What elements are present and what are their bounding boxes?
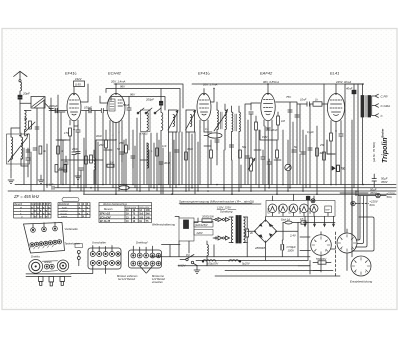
capacitor band A4	[79, 168, 83, 191]
resistor 1k mid	[64, 165, 67, 172]
svg-text:2k: 2k	[249, 231, 254, 235]
svg-text:0,1µF: 0,1µF	[307, 130, 314, 134]
svg-text:100V: 100V	[288, 249, 296, 253]
svg-text:20nF: 20nF	[270, 128, 278, 132]
svg-text:normal: normal	[61, 210, 68, 212]
socket 2	[337, 229, 357, 253]
rectifier bridge 280848	[247, 217, 283, 261]
diode right	[327, 140, 345, 172]
wires strip2	[133, 246, 152, 253]
power transformer	[229, 216, 248, 244]
resistor mid 2	[185, 152, 188, 160]
ground symbol bus left	[38, 175, 44, 184]
pulley left	[29, 260, 43, 274]
wire bottom joints	[298, 260, 310, 274]
note bruecken 2	[152, 275, 166, 284]
svg-text:EF41: EF41	[299, 207, 302, 213]
svg-text:50k: 50k	[242, 145, 247, 149]
svg-text:5µ25V: 5µ25V	[242, 262, 250, 266]
svg-text:einsetzen: einsetzen	[152, 281, 163, 284]
wire EF41 misc	[56, 111, 65, 113]
IF transformer input L1	[7, 134, 30, 164]
wire bus 2	[55, 187, 396, 189]
wire osc section verticals	[133, 130, 192, 194]
resistor band A3	[90, 155, 97, 163]
svg-text:170: 170	[64, 131, 69, 135]
mains plug arrows bottom	[213, 236, 230, 240]
svg-text:Drehkopf: Drehkopf	[136, 240, 149, 244]
svg-text:M: M	[20, 207, 22, 209]
svg-text:ECH42: ECH42	[278, 205, 281, 213]
oscillator coil box	[140, 110, 150, 136]
speaker tap C.FR	[372, 94, 389, 98]
svg-text:100µ/25V: 100µ/25V	[207, 262, 218, 266]
capacitor padder	[159, 161, 171, 185]
dial cord	[42, 261, 57, 272]
capacitor right 1	[301, 152, 305, 154]
resistor 1M diode load	[277, 112, 286, 140]
svg-text:Pol: Pol	[186, 253, 190, 257]
volume pot	[248, 150, 255, 191]
choke 5u	[229, 260, 250, 266]
capacitor 40nF anode	[346, 84, 358, 240]
wire comb osc section	[110, 128, 122, 194]
ground symbol bus left2	[75, 172, 81, 180]
socket 3	[351, 256, 371, 276]
svg-text:30pF: 30pF	[187, 147, 193, 151]
dashed divider	[335, 232, 337, 276]
table 1 Bereich	[14, 203, 51, 219]
resistor 550ohm	[313, 257, 331, 264]
IF transformer 3	[232, 106, 241, 160]
svg-text:Tripolin: Tripolin	[382, 137, 389, 163]
wire v352	[351, 120, 353, 257]
wire heater feed	[180, 196, 308, 260]
svg-text:20V, 1,7mA: 20V, 1,7mA	[202, 83, 218, 87]
svg-text:200pF: 200pF	[145, 97, 154, 101]
svg-text:750: 750	[341, 167, 346, 171]
resistor osc 25k	[118, 139, 127, 191]
resistor mid 1	[156, 148, 159, 156]
input coil block	[31, 97, 56, 111]
svg-text:25k: 25k	[319, 143, 325, 147]
junction dots midband	[62, 184, 198, 195]
wire comb mixer	[137, 118, 157, 191]
wire bus 4	[85, 193, 396, 195]
capacitor 100pF input	[49, 104, 58, 111]
svg-text:110V 125V: 110V 125V	[126, 207, 137, 209]
capacitor 20pF antenna	[18, 92, 30, 104]
capacitor 50uF 350V	[372, 174, 389, 187]
svg-text:Spannungsversorgung (Mikroverb: Spannungsversorgung (Mikroverbraucher ( …	[179, 199, 254, 203]
capacitor grid EF41	[55, 108, 66, 184]
wire power bus 5	[150, 256, 310, 258]
capacitor mid 4	[292, 150, 296, 152]
svg-text:ECH42: ECH42	[108, 71, 122, 76]
resistor 200ohm 1W	[201, 215, 214, 223]
svg-text:Drehkond.: Drehkond.	[59, 204, 70, 206]
junction dots tube pins	[73, 83, 364, 140]
wire comb af	[293, 104, 306, 188]
capacitor decoupling EF41	[72, 130, 76, 185]
svg-text:350V: 350V	[370, 191, 378, 195]
choke 100u	[202, 260, 218, 266]
capacitor left lower	[26, 152, 30, 166]
resistor 1W horizontal	[107, 161, 114, 167]
mains plug arrows top	[213, 218, 230, 222]
tone pot circle	[285, 140, 291, 191]
choke vertical	[207, 241, 208, 266]
fuse 150mA	[118, 183, 129, 190]
wire bridge out	[283, 223, 298, 257]
capacitor 50uF 350V	[340, 187, 378, 195]
svg-text:250: 250	[98, 143, 104, 147]
capacitor 20nF mid	[71, 147, 80, 153]
wire power bus 9	[215, 275, 340, 277]
svg-text:(110/125)V: (110/125)V	[195, 223, 208, 227]
coupling coil ellipse	[204, 133, 222, 138]
wire jogs midband	[58, 140, 281, 160]
capacitor tone 2	[267, 159, 271, 188]
svg-text:50: 50	[24, 117, 28, 121]
tube EF41/1	[67, 87, 81, 130]
wire v324	[323, 84, 325, 185]
wire HT rail 96V seg1	[114, 84, 183, 108]
speaker tap C	[372, 114, 384, 118]
svg-text:245V, 32mA: 245V, 32mA	[335, 80, 351, 84]
capacitor heater block	[306, 196, 310, 199]
terminal strip 1	[88, 248, 121, 269]
capacitor EL41 cathode	[339, 131, 343, 185]
table 2 Drehkondensator	[58, 203, 90, 219]
capacitor 100pF anode out	[82, 106, 101, 191]
value labels sprinkled	[96, 127, 325, 151]
capacitor AGC	[249, 112, 253, 150]
capacitor det 1	[288, 110, 292, 112]
wire EAF42 right	[276, 102, 298, 188]
resistor agc	[85, 150, 88, 185]
svg-text:ZF = 455 kHz: ZF = 455 kHz	[13, 194, 40, 199]
svg-text:40nF: 40nF	[346, 87, 353, 91]
heater tube EL41	[309, 204, 318, 213]
capacitor mid 3	[245, 156, 249, 158]
wire heater bottom rail	[303, 222, 335, 224]
svg-text:Bereich: Bereich	[104, 208, 113, 211]
capacitor tone 1	[261, 150, 265, 185]
wire v345	[345, 84, 363, 196]
resistor AGC	[255, 116, 258, 185]
lamp 220V	[351, 200, 379, 208]
svg-text:50pF: 50pF	[123, 103, 130, 107]
svg-text:20V, 1,4mA: 20V, 1,4mA	[110, 80, 126, 84]
resistor 0,5 ohm	[298, 218, 308, 224]
wire rail segment 96V	[111, 97, 165, 111]
terminal strip 2	[129, 250, 162, 268]
wire chassis bus 1	[15, 184, 396, 186]
voltage selector block	[179, 218, 213, 241]
wire agc line	[61, 159, 103, 161]
svg-text:20nF: 20nF	[71, 147, 78, 151]
oscillator padder coil	[147, 143, 153, 168]
svg-text:220V: 220V	[196, 231, 203, 235]
capacitor 0,1uF on bus	[46, 183, 54, 190]
svg-text:P1M: P1M	[262, 135, 268, 139]
svg-text:5VA: 5VA	[387, 195, 392, 199]
wire HT rail 96V seg2	[192, 83, 363, 85]
svg-text:Vorderseite: Vorderseite	[65, 227, 79, 231]
capacitor tuning left	[26, 148, 37, 152]
wire v303	[302, 130, 304, 191]
capacitor mid 1	[120, 152, 124, 162]
ground L1	[8, 170, 14, 184]
wire IF verticals	[200, 104, 251, 194]
svg-text:6VA: 6VA	[370, 203, 375, 207]
capacitor ECH42 grid	[101, 108, 107, 184]
wire power bus 7	[196, 259, 308, 261]
heater tube EF41 b	[299, 204, 309, 214]
capacitor 50uF 100V	[281, 240, 296, 257]
capacitor IF3	[229, 145, 233, 147]
svg-text:150V 220V: 150V 220V	[139, 207, 150, 209]
coil IF small	[94, 150, 96, 185]
capacitor band A2	[64, 156, 68, 185]
capacitor det 2	[295, 115, 299, 117]
note bruecken 1	[117, 275, 138, 281]
capacitor cathode EF41	[74, 125, 80, 188]
wire bus 3	[8, 190, 396, 192]
svg-text:Becker: Becker	[381, 129, 385, 138]
heater resistor NSF	[325, 206, 332, 213]
svg-text:EAF42: EAF42	[260, 71, 273, 76]
pol block small	[75, 244, 83, 266]
svg-text:bei 12V Betrieb: bei 12V Betrieb	[118, 278, 136, 281]
wire screen rail	[106, 89, 180, 133]
wire heater feeds top	[273, 194, 315, 200]
wire band A links	[56, 140, 70, 170]
tube EL41	[327, 84, 344, 185]
svg-text:4k5: 4k5	[59, 167, 64, 170]
pulley right	[57, 260, 68, 271]
label 110V 125V	[217, 206, 236, 214]
wire heater pins down	[273, 212, 329, 216]
svg-text:EF41∕₂: EF41∕₂	[198, 71, 210, 76]
svg-text:NSF: NSF	[325, 210, 330, 212]
capacitor 10nF coupling	[297, 98, 313, 107]
svg-text:2,4V: 2,4V	[289, 234, 297, 238]
plug 2	[49, 276, 54, 286]
wires strip1 up	[93, 246, 112, 252]
svg-text:100pF: 100pF	[84, 106, 92, 110]
wire input verticals	[37, 95, 58, 191]
tuned circuit LW	[186, 110, 196, 132]
meter box 0,95	[74, 81, 85, 87]
wire antenna to filter	[20, 103, 31, 133]
svg-text:1M: 1M	[281, 119, 286, 123]
resistor right 1	[316, 148, 325, 156]
wire EAF42 grid left	[251, 103, 261, 110]
resistor IF	[210, 140, 213, 185]
coil oscillator feedback	[161, 113, 163, 144]
svg-text:EAF42: EAF42	[288, 206, 291, 214]
svg-text:6/12V: 6/12V	[178, 263, 186, 267]
wire drehkopf to switch	[162, 245, 181, 257]
heater tube EAF42	[288, 204, 298, 214]
svg-text:Ersatzbestückung: Ersatzbestückung	[350, 280, 373, 284]
resistor right 2	[323, 152, 326, 160]
key circle 2	[42, 223, 47, 232]
svg-text:10nF: 10nF	[300, 98, 307, 102]
junction dots bus	[69, 184, 364, 195]
svg-text:Bereich: Bereich	[14, 204, 23, 206]
svg-text:EF41+1/2: EF41+1/2	[100, 213, 111, 216]
resistor band A1	[57, 146, 64, 154]
resistor EL41 cathode	[330, 133, 333, 185]
fuse Sich	[281, 218, 298, 224]
resistor input divider	[24, 117, 35, 132]
wire power bus 6	[178, 265, 310, 267]
wire mid horizontal links	[96, 130, 277, 185]
svg-text:20pF: 20pF	[22, 92, 30, 96]
wire comb midband	[24, 138, 198, 194]
svg-text:Druckt.: Druckt.	[61, 212, 68, 215]
resistor cathode EF41	[64, 128, 71, 191]
svg-text:280848: 280848	[254, 246, 265, 250]
plug 3	[60, 276, 65, 285]
wire L1 connections	[11, 128, 28, 170]
capacitor 50pF osc	[123, 97, 131, 151]
plug 1	[39, 276, 44, 285]
svg-text:Sich 1A: Sich 1A	[281, 218, 290, 222]
svg-text:C.GRA: C.GRA	[381, 104, 391, 108]
power switch	[180, 253, 198, 266]
svg-text:Schaltung: Schaltung	[220, 210, 233, 214]
speaker tap C.GRA	[372, 104, 390, 108]
antenna	[14, 71, 27, 95]
svg-text:Allstrom-Netzanschluss: Allstrom-Netzanschluss	[102, 203, 128, 206]
svg-text:192V: 192V	[75, 77, 83, 81]
keyboard trapezoid	[24, 223, 65, 254]
resistor mid 3	[239, 150, 242, 158]
wire v310	[309, 104, 311, 188]
chassis base lines	[26, 274, 71, 277]
svg-text:Wellenschalterung: Wellenschalterung	[152, 223, 175, 227]
svg-text:Umschalter: Umschalter	[92, 240, 107, 244]
resistor 3k	[39, 146, 47, 154]
svg-text:EF41∕₁: EF41∕₁	[65, 71, 77, 76]
IF transformer 2	[214, 102, 228, 165]
socket 1	[311, 232, 332, 256]
wire EL41 grid chain	[322, 103, 327, 105]
svg-text:200Ω/1W: 200Ω/1W	[201, 215, 214, 219]
wire comb det	[248, 120, 272, 191]
svg-text:EL41: EL41	[309, 207, 312, 213]
lamp dial	[311, 199, 315, 203]
wire EF41 screen to rail	[81, 84, 88, 102]
capacitor IF2	[215, 140, 219, 150]
tube EF41/2	[197, 89, 211, 133]
heater tube EF41 a	[267, 204, 277, 214]
svg-text:0,95: 0,95	[75, 83, 81, 87]
wires strip1 down	[71, 266, 106, 274]
heater tube ECH42	[278, 204, 288, 214]
svg-text:EF41: EF41	[267, 207, 270, 213]
table 3 Allstrom	[99, 203, 152, 224]
wire mid verticals	[241, 130, 297, 188]
capacitor right 2	[308, 148, 312, 150]
svg-text:Drehko: Drehko	[31, 255, 40, 259]
svg-text:1nF: 1nF	[162, 144, 167, 148]
capacitor 20nF	[266, 128, 278, 185]
svg-text:100pF: 100pF	[49, 104, 58, 108]
wire power left column	[175, 217, 214, 257]
diode right	[327, 140, 345, 172]
resistor sec 2k	[246, 217, 254, 257]
wire comb if1	[176, 132, 195, 194]
svg-text:0,1: 0,1	[205, 127, 209, 131]
label tab above table2	[62, 198, 79, 202]
resistor det	[276, 140, 279, 194]
tube ECH42	[107, 84, 125, 140]
capacitor mid 2	[175, 150, 179, 152]
key circle 1	[31, 224, 36, 233]
resistor 250	[98, 130, 107, 185]
svg-text:96V, 0,85mA: 96V, 0,85mA	[263, 80, 279, 84]
svg-text:350V: 350V	[381, 180, 389, 184]
svg-text:(ab Nr. 70 500): (ab Nr. 70 500)	[372, 142, 376, 162]
switch contacts band	[137, 108, 161, 114]
ground power	[194, 266, 200, 274]
svg-text:C.FR: C.FR	[381, 94, 389, 98]
lamp 220V	[358, 192, 396, 200]
wire heater down arrows	[304, 216, 335, 226]
idler wheels	[43, 261, 54, 269]
wire ECH42 grid	[100, 96, 107, 103]
svg-text:autom.: autom.	[61, 215, 68, 218]
capacitor input coupling	[35, 127, 39, 129]
socket wires right	[356, 196, 360, 240]
output transformer	[361, 84, 372, 185]
svg-text:4k7: 4k7	[320, 151, 325, 155]
wire power bus 8	[225, 270, 333, 272]
key row circles	[29, 240, 62, 250]
key circle 3	[53, 222, 58, 231]
wires strip2 V	[140, 266, 153, 273]
socket lower wires	[313, 249, 336, 271]
capacitor osc pair	[131, 156, 135, 168]
wire left risers	[27, 148, 29, 177]
wire EF42 screen	[211, 89, 214, 103]
tuned circuit MW	[168, 110, 178, 132]
svg-text:EF 41+78: EF 41+78	[100, 220, 111, 223]
resistor 4k5	[55, 165, 64, 172]
capacitor 200pF	[145, 89, 163, 113]
svg-text:40nF: 40nF	[96, 134, 102, 138]
wire v317	[316, 126, 318, 194]
tube EAF42	[261, 84, 275, 129]
coil antenna band	[19, 111, 31, 137]
svg-text:ECH+EAF: ECH+EAF	[100, 217, 111, 219]
svg-text:EL41: EL41	[330, 71, 339, 76]
heater chain frame	[266, 201, 335, 217]
resistor 1k grid stopper	[313, 98, 322, 107]
